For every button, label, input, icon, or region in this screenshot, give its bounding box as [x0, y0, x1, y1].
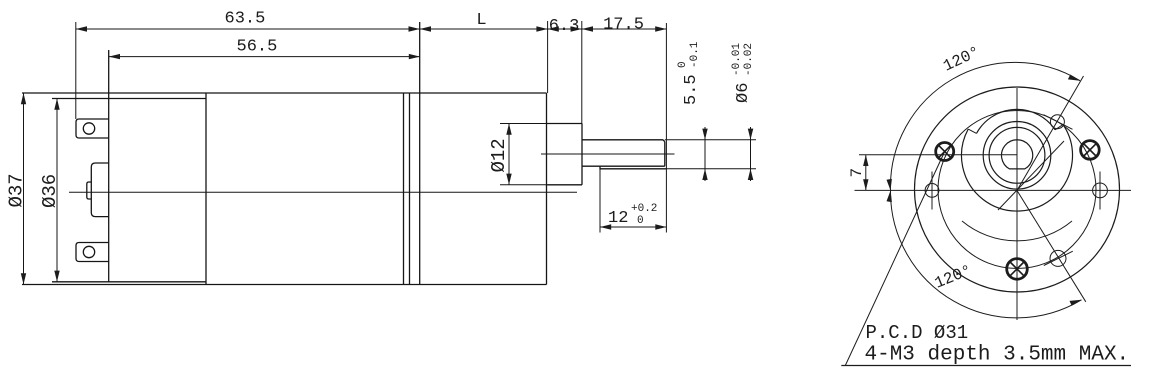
gasket line: [409, 93, 411, 285]
arrow Ø12 top: [506, 124, 511, 135]
shaft axis centerline: [541, 153, 675, 155]
dimension Ø6 line: [750, 127, 752, 181]
chamber step connector left: [968, 129, 976, 133]
dimension 56.5 line: [109, 56, 420, 58]
svg-text:120°: 120°: [941, 43, 983, 76]
extension line at boss face for 6.3/17.5: [581, 21, 583, 124]
top dimension line 63.5/L/6.3/17.5: [76, 28, 667, 30]
arrow L right / 6.3 left pair: [536, 26, 547, 31]
shaft bottom edge: [582, 165, 665, 167]
svg-text:5.5: 5.5: [682, 74, 701, 105]
pin hole left (plain): [925, 184, 939, 198]
svg-text:17.5: 17.5: [603, 16, 644, 35]
arrow 56.5 left: [109, 54, 120, 59]
svg-text:12: 12: [608, 209, 628, 228]
svg-text:Ø36: Ø36: [39, 174, 61, 208]
arrow 7 top: [863, 155, 868, 166]
Ø36 dimension line: [56, 99, 58, 282]
shaft top edge: [582, 140, 665, 142]
svg-text:6.3: 6.3: [549, 17, 580, 36]
arrow 5.5 top: [702, 129, 707, 140]
arrow 12 right: [655, 224, 666, 229]
output boss bottom: [547, 184, 583, 186]
rear endcap left face + 56.5 extension line: [108, 50, 110, 282]
Ø12 extension bottom: [500, 184, 547, 186]
120 deg bottom arc: [890, 191, 1081, 318]
svg-text:Ø37: Ø37: [6, 173, 28, 207]
vertical centerline: [1016, 88, 1018, 320]
radial line to upper-right hole: [1017, 76, 1084, 191]
M3 hole left (thick): [936, 143, 954, 161]
7 dimension line: [865, 155, 867, 191]
arrow Ø37 top: [21, 93, 26, 104]
svg-text:7: 7: [848, 168, 866, 178]
shaft flat extension right (to Ø6 dim): [667, 168, 757, 170]
svg-text:0: 0: [677, 61, 689, 68]
arrow 12 left: [600, 224, 611, 229]
shaft axis line: [859, 154, 1017, 156]
output boss top: [547, 123, 583, 125]
M3 hole bottom (thick): [1007, 259, 1028, 280]
shaft flat line: [600, 166, 667, 169]
terminal tab top hole: [83, 123, 94, 134]
Ø12 dimension line: [508, 124, 510, 185]
arrow Ø6 top: [748, 129, 754, 140]
svg-text:56.5: 56.5: [237, 38, 278, 57]
arrows: right view: [863, 75, 1081, 306]
pin hole right (plain): [1093, 183, 1108, 198]
arrow 17.5 right: [655, 26, 666, 31]
dimension texts: side view: [6, 10, 754, 229]
shaft top extension right: [665, 139, 756, 141]
collar circle: [989, 127, 1045, 183]
shaft right end: [664, 142, 666, 167]
svg-text:0: 0: [637, 215, 644, 227]
arrow bottom arc right end: [1070, 300, 1082, 306]
arrow Ø36 bottom: [54, 271, 59, 282]
motor axis centerline: [69, 191, 577, 193]
svg-text:L: L: [476, 11, 486, 30]
diagonal leader through center: [998, 141, 1064, 210]
Ø37 dimension line: [23, 93, 25, 285]
arrow top arc right end: [1068, 75, 1080, 81]
texts: right view: [848, 43, 983, 293]
outer housing circle: [915, 87, 1120, 292]
svg-text:P.C.D Ø31: P.C.D Ø31: [866, 322, 969, 344]
M3 hole right (thick): [1081, 141, 1100, 160]
arrow top arc left end: [887, 179, 892, 191]
brush cap bump: [91, 163, 108, 217]
terminal tab bottom: [76, 243, 109, 262]
horizontal centerline: [855, 189, 1132, 191]
hole upper-right (light) with cross: [1050, 115, 1064, 129]
gearbox rear lip + 63.5/L extension line: [419, 22, 421, 285]
arrows: side view: [21, 26, 754, 284]
arrow 7 bottom: [863, 179, 868, 190]
dimension 5.5 line: [704, 127, 706, 181]
leader line to M3 hole: [845, 152, 944, 366]
arrow 63.5 right / L left pair: [409, 26, 420, 31]
chamber lower arc: [961, 125, 1072, 212]
svg-text:-0.1: -0.1: [689, 41, 701, 68]
extension line at shaft end for 17.5/12: [665, 23, 667, 233]
shaft circle with flat: [1002, 140, 1033, 169]
dimension 12 line: [600, 226, 667, 228]
motor body top edge (Ø37 section) with Ø37 extension: [22, 92, 547, 94]
arrow Ø6 bottom: [748, 169, 754, 180]
arrow Ø37 bottom: [21, 273, 26, 284]
output boss right edge: [581, 124, 583, 185]
note underline: [841, 365, 1131, 367]
arrow Ø36 top: [54, 99, 59, 110]
brush cap nub: [87, 182, 92, 199]
Ø12 extension top: [500, 123, 547, 125]
arrow 56.5 right: [409, 54, 420, 59]
arrow 63.5 left: [76, 26, 87, 31]
svg-text:Ø6: Ø6: [734, 83, 753, 103]
arrow bottom arc left end: [887, 191, 892, 203]
svg-text:120°: 120°: [932, 262, 974, 293]
arrow Ø12 bottom: [506, 174, 511, 185]
terminal tab bottom hole: [83, 246, 94, 257]
P.C.D Ø31 bolt circle: [938, 111, 1096, 269]
svg-text:-0.01: -0.01: [731, 43, 743, 76]
chamber step connector right: [1055, 125, 1063, 130]
rear endcap top edge (Ø36) with Ø36 extension: [52, 98, 206, 100]
step line between endcap and can: [205, 93, 207, 285]
rear endcap bottom edge (Ø36) with Ø36 extension: [52, 281, 206, 283]
chamber bottom small arc: [962, 221, 1072, 241]
120 deg top arc: [890, 62, 1080, 190]
chamber upper arc: [977, 109, 1056, 133]
motor body bottom edge (Ø37 section) with Ø37 extension: [22, 284, 547, 286]
svg-text:4-M3 depth 3.5mm MAX.: 4-M3 depth 3.5mm MAX.: [865, 344, 1130, 367]
hole lower-right (light) with cross: [1050, 250, 1066, 266]
arrow 5.5 bottom: [702, 169, 707, 180]
extension line for 12 dim left: [599, 169, 601, 233]
radial line to lower-right hole: [1017, 191, 1086, 302]
extension line at gearbox face for L/6.3: [547, 21, 549, 93]
svg-text:+0.2: +0.2: [631, 203, 657, 215]
gearbox front face: [546, 93, 548, 285]
terminal tab top: [76, 119, 109, 138]
svg-text:63.5: 63.5: [225, 10, 266, 29]
can front edge: [403, 93, 405, 285]
svg-text:Ø12: Ø12: [488, 138, 510, 172]
svg-text:-0.02: -0.02: [743, 43, 755, 76]
boss circle Ø12: [983, 122, 1051, 190]
arrow 6.3 right / 17.5 left pair: [571, 26, 582, 31]
dimension 63.5 extension left: [75, 22, 77, 119]
